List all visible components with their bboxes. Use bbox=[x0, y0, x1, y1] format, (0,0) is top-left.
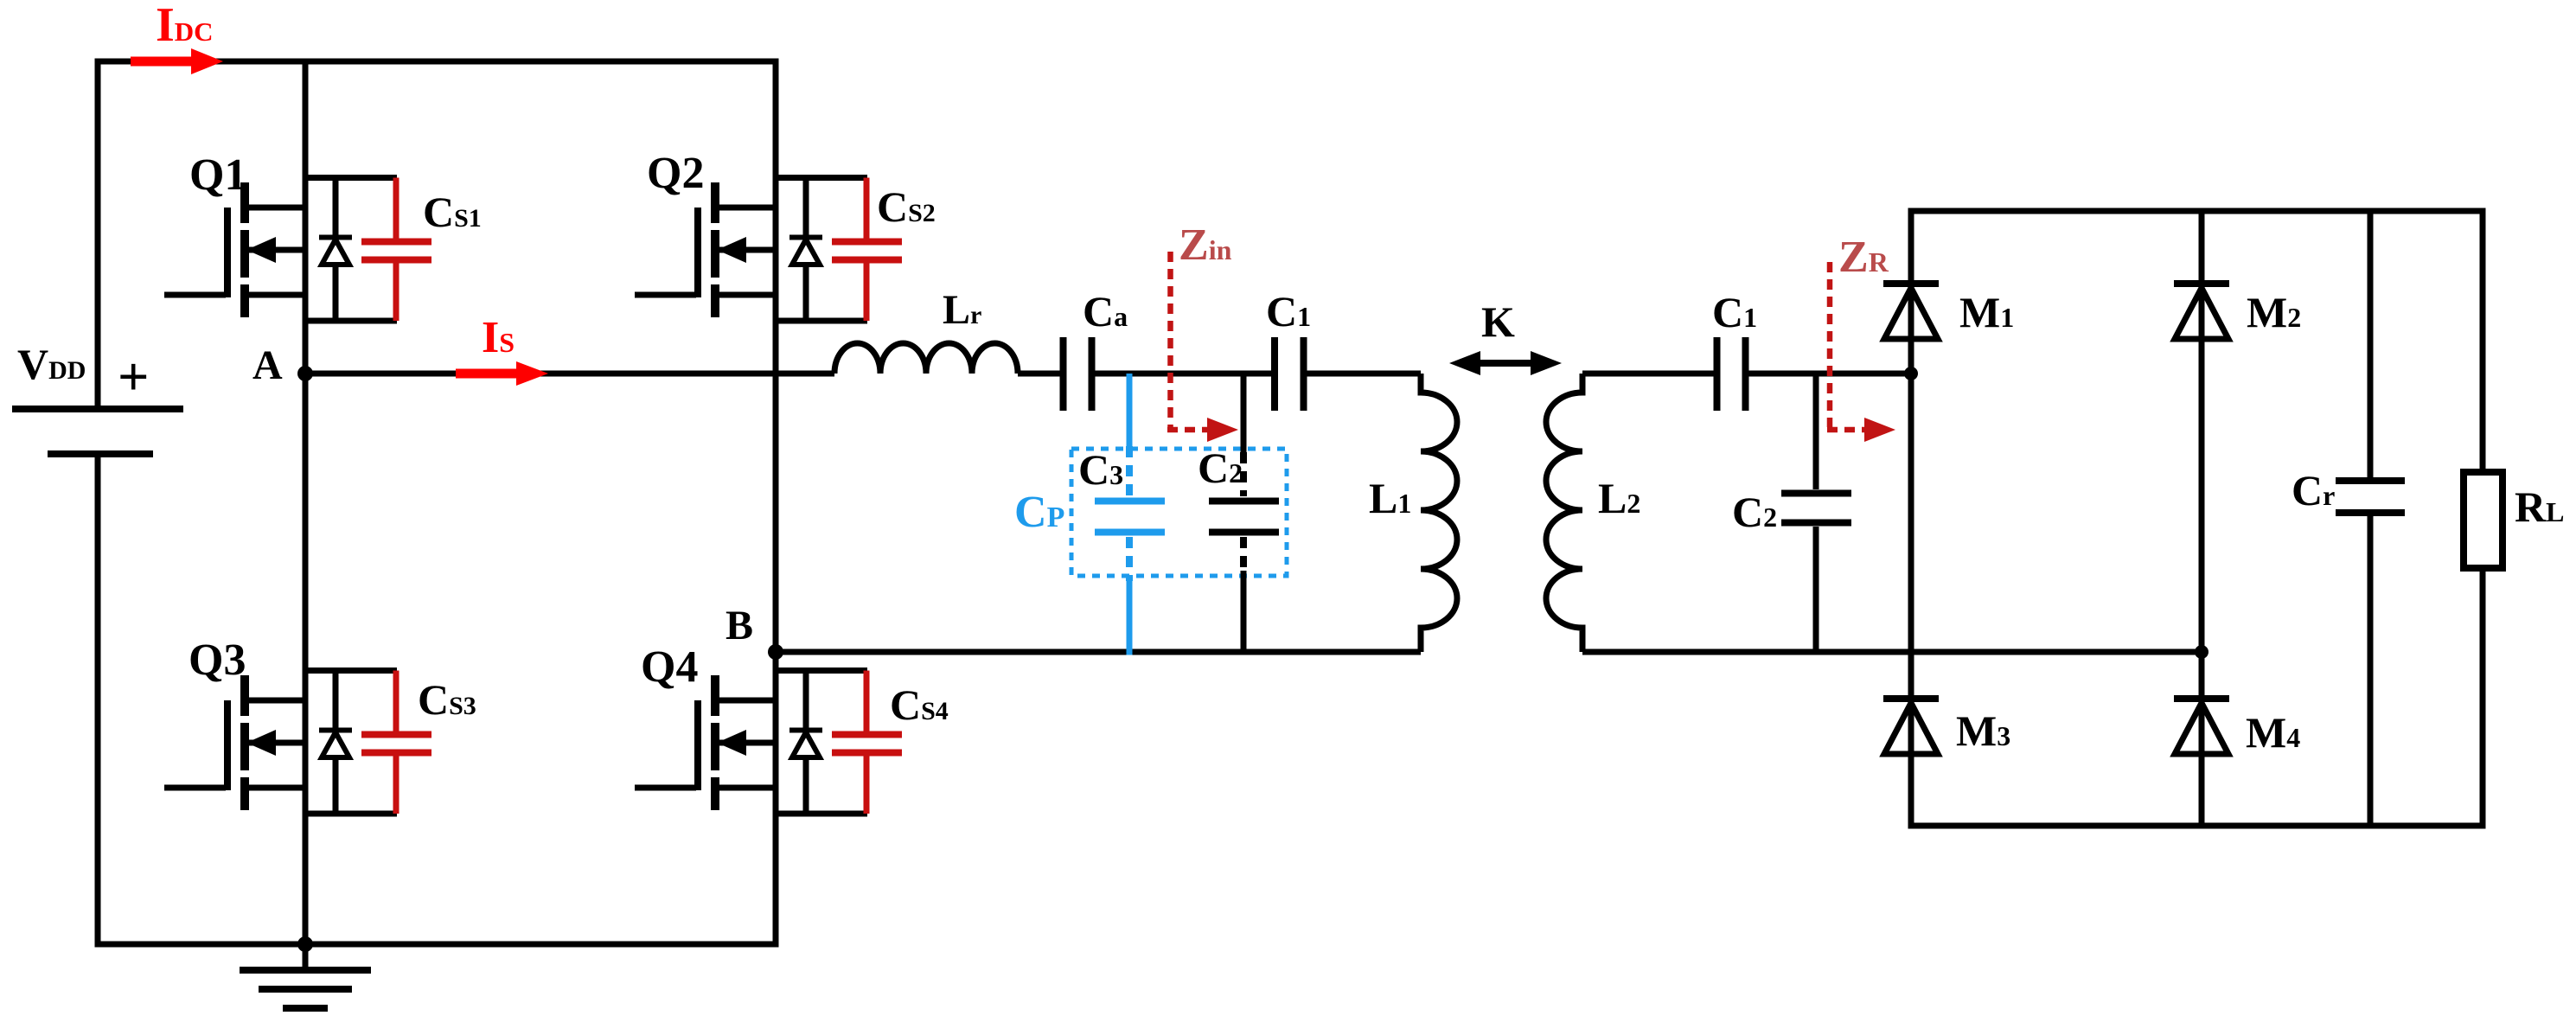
capacitor CS3 (snubber) bbox=[361, 671, 431, 814]
diode M3 bbox=[1883, 699, 1939, 754]
capacitor C1 secondary plates bbox=[1714, 337, 1721, 411]
wire node-B rail bbox=[773, 649, 1422, 655]
capacitor CS4 (snubber) bbox=[832, 671, 902, 814]
wire M2-M4 column bbox=[2199, 211, 2205, 826]
diode M1 bbox=[1883, 284, 1939, 339]
wire L2 bottom to rectifier bbox=[1582, 649, 2202, 655]
junction dot ground node bbox=[297, 936, 313, 952]
wire bottom rail bbox=[95, 942, 779, 948]
wire Ca to C1 bbox=[1095, 371, 1271, 377]
capacitor C1 primary plates bbox=[1271, 337, 1278, 411]
transistor Q3 (MOSFET) bbox=[164, 675, 305, 810]
capacitor Cr bbox=[2336, 211, 2405, 826]
body diode of Q4 bbox=[776, 671, 867, 814]
svg-text:VDD: VDD bbox=[17, 340, 86, 388]
svg-text:CS4: CS4 bbox=[890, 680, 949, 729]
wire C1 to L1 bbox=[1307, 371, 1421, 377]
wire rectifier bottom rail bbox=[1908, 823, 2486, 829]
svg-text:M4: M4 bbox=[2246, 708, 2300, 757]
svg-text:Q4: Q4 bbox=[641, 642, 698, 692]
wire node-A rail bbox=[305, 371, 834, 377]
svg-text:IDC: IDC bbox=[156, 0, 214, 52]
wire Q3 column bbox=[303, 374, 309, 944]
svg-text:CS2: CS2 bbox=[877, 182, 936, 231]
arrow ZR impedance (dashed) bbox=[1827, 262, 1895, 442]
svg-text:IS: IS bbox=[482, 313, 515, 362]
battery VDD positive plate bbox=[12, 406, 183, 412]
svg-text:CS3: CS3 bbox=[418, 675, 476, 724]
ground bar 1 bbox=[240, 967, 371, 974]
svg-text:Ca: Ca bbox=[1083, 287, 1128, 335]
wire M1-M3 column bbox=[1908, 211, 1914, 826]
wire Q4 column bbox=[773, 652, 779, 948]
diode M4 bbox=[2174, 699, 2229, 754]
wire left vertical (Vdd top) bbox=[95, 59, 101, 410]
arrow IS current bbox=[456, 361, 548, 386]
box CP (dashed) bbox=[1071, 449, 1287, 576]
wire C1 secondary to rectifier bbox=[1748, 371, 1911, 377]
svg-text:C3: C3 bbox=[1078, 445, 1123, 494]
capacitor Ca plates bbox=[1060, 337, 1067, 411]
svg-text:C1: C1 bbox=[1712, 288, 1757, 336]
svg-text:C2: C2 bbox=[1732, 488, 1777, 536]
svg-text:L1: L1 bbox=[1369, 474, 1411, 522]
wire rectifier top rail bbox=[1908, 208, 2486, 214]
svg-text:Q1: Q1 bbox=[189, 150, 246, 200]
wire Q2 column bbox=[773, 59, 779, 653]
body diode of Q2 bbox=[776, 178, 867, 322]
wire Q1 column bbox=[303, 59, 309, 374]
ground bar 3 bbox=[283, 1005, 328, 1012]
svg-text:RL: RL bbox=[2515, 482, 2564, 531]
body diode of Q1 bbox=[305, 178, 397, 322]
svg-text:+: + bbox=[118, 346, 149, 407]
transistor Q1 (MOSFET) bbox=[164, 182, 305, 317]
junction dot node B bbox=[768, 644, 783, 660]
capacitor C2 primary branch bbox=[1209, 374, 1279, 652]
svg-text:Q2: Q2 bbox=[647, 149, 704, 198]
inductor L2 bbox=[1546, 374, 1582, 652]
ground bar 2 bbox=[259, 986, 352, 993]
resistor RL bbox=[2464, 211, 2502, 826]
junction dot node A bbox=[297, 366, 313, 381]
svg-text:M1: M1 bbox=[1959, 288, 2014, 336]
svg-text:CP: CP bbox=[1014, 488, 1064, 537]
svg-text:A: A bbox=[252, 342, 283, 388]
capacitor CS1 (snubber) bbox=[361, 178, 431, 322]
wire top rail bbox=[95, 59, 779, 65]
svg-text:C1: C1 bbox=[1266, 287, 1311, 335]
wire Lr to Ca bbox=[1018, 371, 1060, 377]
transistor Q4 (MOSFET) bbox=[635, 675, 776, 810]
transistor Q2 (MOSFET) bbox=[635, 182, 776, 317]
svg-text:Lr: Lr bbox=[943, 287, 981, 333]
junction dot rectifier AC1 bbox=[1904, 367, 1918, 380]
svg-text:M2: M2 bbox=[2247, 288, 2301, 336]
arrow Zin impedance (dashed) bbox=[1167, 252, 1238, 442]
svg-text:K: K bbox=[1481, 297, 1515, 346]
capacitor CS2 (snubber) bbox=[832, 178, 902, 322]
svg-text:CS1: CS1 bbox=[423, 188, 482, 236]
arrow K coupling bbox=[1449, 351, 1562, 375]
ground stem bbox=[303, 944, 309, 970]
svg-text:Cr: Cr bbox=[2292, 466, 2335, 514]
diode M2 bbox=[2174, 284, 2229, 339]
arrow IDC current bbox=[131, 48, 223, 74]
wire left vertical (Vdd bottom) bbox=[95, 454, 101, 948]
svg-text:M3: M3 bbox=[1956, 706, 2010, 755]
capacitor C2 secondary branch bbox=[1781, 374, 1851, 652]
inductor Lr bbox=[834, 343, 1018, 374]
wire L2 to C1 secondary bbox=[1582, 371, 1714, 377]
svg-text:B: B bbox=[725, 603, 753, 648]
inductor L1 bbox=[1421, 374, 1457, 652]
battery VDD negative plate bbox=[48, 450, 153, 457]
capacitor C3 branch (blue) bbox=[1095, 374, 1165, 655]
svg-text:ZR: ZR bbox=[1838, 233, 1889, 282]
junction dot rectifier AC2 bbox=[2195, 645, 2208, 659]
svg-text:L2: L2 bbox=[1598, 474, 1640, 522]
svg-text:Q3: Q3 bbox=[189, 636, 246, 685]
svg-text:Zin: Zin bbox=[1179, 220, 1232, 270]
body diode of Q3 bbox=[305, 671, 397, 814]
